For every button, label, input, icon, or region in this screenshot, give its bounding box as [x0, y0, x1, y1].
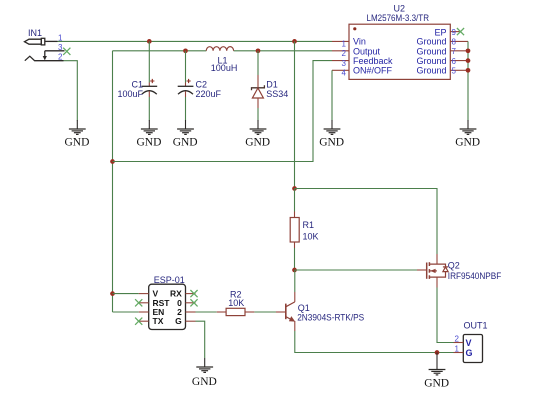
junction GND at OUT1 — [435, 350, 440, 355]
junction at C2 top — [183, 48, 188, 53]
pin 1 of OUT1 — [454, 345, 464, 354]
svg-text:GND: GND — [65, 137, 90, 149]
value LM2576M-3.3/TR — [367, 13, 430, 23]
svg-text:GND: GND — [245, 137, 270, 149]
pin RX of ESP-01 — [170, 289, 196, 299]
pin G of ESP-01 — [175, 316, 195, 326]
svg-text:GND: GND — [137, 137, 162, 149]
svg-text:LM2576M-3.3/TR: LM2576M-3.3/TR — [367, 13, 430, 23]
svg-text:C2: C2 — [196, 79, 208, 89]
pin number 3 of IN1 — [58, 43, 63, 52]
pin 3 of U2 — [332, 59, 349, 68]
svg-text:Output: Output — [353, 46, 381, 56]
wire output net: rail corner to U2 pin2 through L1 — [113, 50, 333, 52]
ground under U2 — [455, 120, 480, 149]
svg-text:D1: D1 — [266, 79, 278, 89]
wire ESP pin2 to R2 — [196, 311, 217, 313]
wire rail to ESP EN — [113, 311, 139, 313]
svg-text:Ground: Ground — [416, 56, 446, 66]
junction at C1 top — [147, 39, 152, 44]
value 220uF — [196, 89, 222, 99]
mosfet Q2 IRF9540NPBF — [427, 262, 448, 279]
wire Vin branch down to Q2/R1 — [294, 41, 296, 188]
label C1 — [131, 79, 143, 89]
value SS34 — [266, 89, 288, 99]
no-connect X on IN1 pin 3 — [63, 48, 70, 55]
label R2 — [230, 290, 242, 300]
pin 8 of U2 — [450, 38, 468, 47]
wire 3.3V rail left vertical — [112, 51, 114, 312]
svg-text:1: 1 — [342, 40, 347, 49]
ground under OUT1 — [424, 353, 449, 390]
pin EN of ESP-01 — [139, 307, 165, 317]
capacitor C2 — [178, 51, 194, 121]
pin name Vin — [353, 37, 366, 47]
wire gate node to Q1 collector — [294, 270, 296, 302]
wire gate node to Q2 gate — [295, 269, 427, 271]
pin name Ground 5 — [416, 66, 446, 76]
svg-text:IN1: IN1 — [28, 28, 42, 38]
pin name Ground 7 — [416, 46, 446, 56]
svg-text:SS34: SS34 — [266, 89, 288, 99]
value 10K of R2 — [228, 298, 244, 308]
junction pin6 — [466, 58, 471, 63]
svg-text:9: 9 — [452, 28, 457, 37]
svg-text:GND: GND — [192, 376, 217, 388]
svg-text:2: 2 — [58, 53, 63, 62]
junction rail-feedback — [110, 159, 115, 164]
svg-text:7: 7 — [452, 47, 457, 56]
pin name G of OUT1 — [466, 348, 473, 358]
no-connect X on 0 — [190, 299, 197, 306]
wire ON#/OFF to GND — [331, 70, 333, 120]
wire IN1 pin2 to GND — [64, 61, 78, 121]
label C2 — [196, 79, 208, 89]
svg-text:10K: 10K — [228, 298, 244, 308]
pin name ON#/OFF — [353, 66, 393, 76]
svg-text:2N3904S-RTK/PS: 2N3904S-RTK/PS — [297, 312, 364, 322]
svg-text:Q2: Q2 — [448, 260, 460, 270]
ground under C2 — [173, 120, 198, 149]
pin RST of ESP-01 — [139, 298, 171, 308]
junction at D1 top — [256, 48, 261, 53]
label ESP-01 — [154, 275, 185, 285]
junction at R1 top — [292, 186, 297, 191]
svg-text:4: 4 — [342, 69, 347, 78]
pin number 1 of IN1 — [58, 33, 63, 42]
junction gate node — [292, 268, 297, 273]
svg-text:G: G — [466, 348, 473, 358]
ground under ESP-01 — [192, 358, 217, 388]
label D1 — [266, 79, 278, 89]
svg-text:R1: R1 — [303, 220, 315, 230]
svg-text:C1: C1 — [131, 79, 143, 89]
junction Vin drop to Q2 branch — [292, 39, 297, 44]
pin name Ground 8 — [416, 37, 446, 47]
svg-text:6: 6 — [452, 57, 457, 66]
label Q1 — [298, 303, 310, 313]
ground under IN1 — [65, 120, 90, 149]
svg-text:Ground: Ground — [416, 37, 446, 47]
no-connect X on RX — [190, 290, 197, 297]
pin 7 of U2 — [450, 47, 468, 56]
pin 0 of ESP-01 — [177, 298, 195, 308]
pin V of ESP-01 — [139, 289, 159, 299]
svg-text:G: G — [175, 316, 182, 326]
resistor R2 — [217, 308, 255, 315]
pin name Feedback — [353, 56, 393, 66]
svg-text:V: V — [466, 338, 472, 348]
wire Q1 emitter to GND rail — [295, 321, 454, 353]
svg-text:IRF9540NPBF: IRF9540NPBF — [448, 271, 502, 281]
svg-text:8: 8 — [452, 38, 457, 47]
pin 6 of U2 — [450, 57, 468, 66]
svg-text:3: 3 — [342, 59, 347, 68]
svg-text:ESP-01: ESP-01 — [154, 275, 185, 285]
svg-text:1: 1 — [455, 345, 460, 354]
pin 5 of U2 — [450, 67, 468, 76]
pin name EP — [434, 27, 446, 37]
wire feedback: U2 pin3 to rail — [113, 61, 333, 162]
regulator U2 LM2576M-3.3/TR — [349, 24, 450, 79]
svg-text:GND: GND — [173, 137, 198, 149]
pin name Ground 6 — [416, 56, 446, 66]
svg-text:5: 5 — [452, 67, 457, 76]
svg-text:Ground: Ground — [416, 46, 446, 56]
svg-text:Feedback: Feedback — [353, 56, 393, 66]
svg-text:10K: 10K — [303, 232, 319, 242]
wire Vin net: IN1 pin1 to U2 pin1 — [58, 40, 333, 42]
label OUT1 — [464, 321, 488, 331]
label R1 — [303, 220, 315, 230]
value IRF9540NPBF — [448, 271, 502, 281]
pin name V of OUT1 — [466, 338, 472, 348]
junction rail-ESP V — [110, 291, 115, 296]
capacitor C1 — [142, 41, 158, 120]
wire rail to ESP V — [113, 293, 139, 295]
svg-text:3: 3 — [58, 43, 63, 52]
svg-text:GND: GND — [424, 378, 449, 390]
svg-text:OUT1: OUT1 — [464, 321, 488, 331]
svg-text:GND: GND — [319, 137, 344, 149]
pin 2 of ESP-01 — [177, 307, 195, 317]
svg-text:ON#/OFF: ON#/OFF — [353, 66, 393, 76]
wire U2 ground pins to GND — [467, 41, 469, 120]
pin 9 EP of U2 — [450, 28, 460, 37]
value 2N3904S-RTK/PS — [297, 312, 364, 322]
label Q2 — [448, 260, 460, 270]
diode D1 SS34 — [252, 51, 265, 121]
value 100uH — [211, 63, 238, 73]
ground under C1 — [137, 120, 162, 149]
transistor Q1 2N3904 — [276, 302, 295, 322]
inductor L1 — [206, 47, 233, 51]
pin 1 of U2 — [332, 40, 349, 49]
pin 2 of OUT1 — [454, 335, 464, 344]
connector IN1 barrel jack — [25, 28, 65, 61]
svg-text:100uH: 100uH — [211, 63, 238, 73]
svg-text:220uF: 220uF — [196, 89, 222, 99]
no-connect X on TX — [135, 318, 142, 325]
label L1 — [218, 55, 228, 65]
svg-text:2: 2 — [342, 49, 347, 58]
junction pin7 — [466, 48, 471, 53]
svg-text:Vin: Vin — [353, 37, 366, 47]
value 100uF — [117, 89, 143, 99]
module ESP-01 — [149, 284, 186, 329]
svg-text:TX: TX — [153, 316, 164, 326]
wire ESP G to GND — [196, 321, 205, 358]
pin 4 of U2 — [332, 69, 349, 78]
connector OUT1 — [463, 335, 482, 363]
pin TX of ESP-01 — [139, 316, 164, 326]
wire R2 to Q1 base — [254, 311, 276, 313]
pin 2 of U2 — [332, 49, 349, 58]
svg-text:GND: GND — [455, 137, 480, 149]
no-connect X on EP — [457, 28, 464, 35]
resistor R1 — [290, 189, 299, 271]
no-connect X on RST — [135, 299, 142, 306]
value 10K of R1 — [303, 232, 319, 242]
svg-text:100uF: 100uF — [117, 89, 143, 99]
ground under ON#/OFF — [319, 120, 344, 149]
label U2 — [394, 4, 406, 14]
wire Q2 drain to OUT1 — [437, 277, 454, 342]
junction pin5 — [466, 68, 471, 73]
svg-text:Ground: Ground — [416, 66, 446, 76]
pin name Output — [353, 46, 381, 56]
pin number 2 of IN1 — [58, 53, 63, 62]
svg-text:2: 2 — [455, 335, 460, 344]
svg-text:U2: U2 — [394, 4, 406, 14]
wire Vin branch to Q2 source — [295, 189, 438, 265]
ground under D1 — [245, 120, 270, 149]
